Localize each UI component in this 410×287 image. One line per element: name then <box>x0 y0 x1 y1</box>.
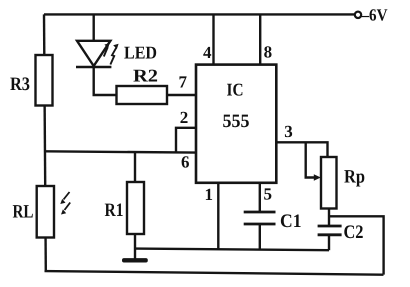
svg-text:C1: C1 <box>280 211 302 232</box>
svg-text:6: 6 <box>181 153 190 172</box>
svg-text:555: 555 <box>223 111 250 132</box>
svg-text:R2: R2 <box>133 66 158 86</box>
svg-text:R1: R1 <box>105 200 124 221</box>
svg-text:–6V: –6V <box>361 6 389 25</box>
svg-text:Rp: Rp <box>344 167 365 188</box>
svg-text:8: 8 <box>264 43 273 62</box>
svg-text:LED: LED <box>124 43 157 63</box>
svg-text:IC: IC <box>227 80 244 100</box>
svg-text:C2: C2 <box>344 222 364 243</box>
svg-text:2: 2 <box>180 108 189 127</box>
svg-text:3: 3 <box>284 122 293 141</box>
svg-text:1: 1 <box>205 185 214 204</box>
svg-text:5: 5 <box>264 185 273 204</box>
svg-text:7: 7 <box>179 73 188 92</box>
svg-text:RL: RL <box>13 202 34 223</box>
svg-text:4: 4 <box>203 43 212 62</box>
svg-text:R3: R3 <box>10 74 30 95</box>
